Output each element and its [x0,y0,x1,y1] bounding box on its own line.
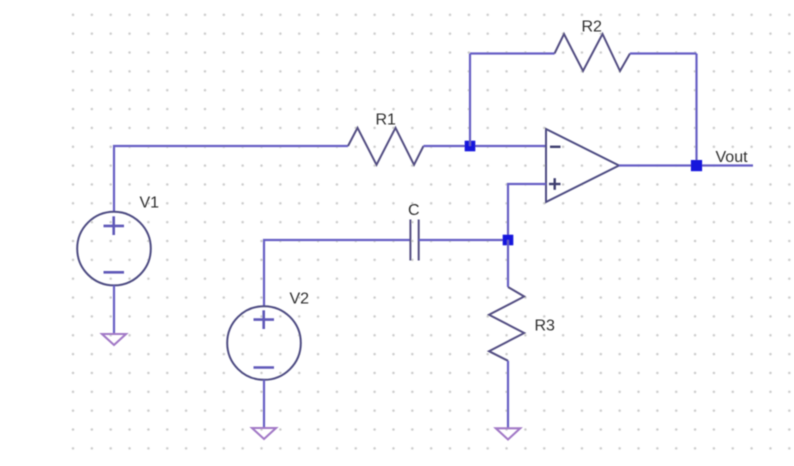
capacitor C [410,220,418,261]
voltage source V2 [227,306,301,380]
wire node A up to R2 [469,54,471,147]
wire R2 right lead [630,52,697,54]
wire op-amp noninverting input [508,184,546,240]
svg-text:R1: R1 [376,112,397,129]
wire capacitor to node B [419,239,508,241]
resistor R2 [555,34,631,71]
wire R1 to op-amp inverting input [424,145,547,147]
node B junction C/R3/op-amp [503,235,514,246]
resistor R1 [348,128,424,165]
node Vout [691,160,702,171]
wire R2 left lead [470,52,555,54]
svg-text:Vout: Vout [716,149,749,166]
wire V2 to capacitor [264,240,410,306]
wire V1 to ground [113,285,115,334]
wire V2 to ground [263,380,265,428]
svg-text:V1: V1 [140,195,160,212]
svg-text:C: C [408,202,420,219]
ground V2 [252,428,276,439]
ground V1 [102,334,126,345]
wire V1 to R1 [114,146,348,212]
wire R2 down to output node [695,54,697,166]
resistor R3 [489,287,524,361]
wire R3 to ground [507,361,509,429]
svg-text:V2: V2 [290,291,310,308]
svg-text:R3: R3 [535,318,556,335]
svg-text:R2: R2 [582,19,603,36]
ground R3 [496,428,520,439]
node A junction R1/R2/op-amp [465,141,476,152]
wire op-amp output to Vout [619,164,753,166]
voltage source V1 [77,212,151,286]
wire node B to R3 [507,240,509,287]
op-amp U1 [546,129,619,202]
